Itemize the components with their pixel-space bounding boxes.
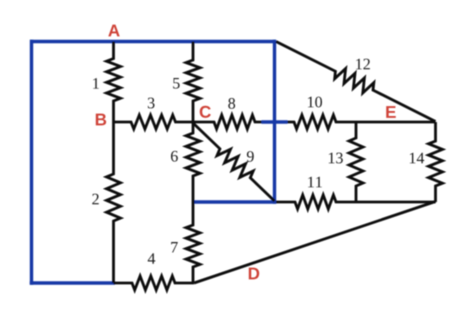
resistor 9 (diagonal from C) [193, 123, 275, 202]
resistor 5 (A to C) [186, 42, 200, 123]
label 3 [148, 98, 155, 109]
label 6 [171, 151, 178, 162]
label 1 [93, 78, 99, 89]
resistor 3 (B to C) [114, 115, 194, 129]
label 2 [92, 194, 98, 205]
resistor 8 (C right) [193, 115, 262, 129]
label 11 [308, 177, 322, 188]
resistor 11 [276, 195, 356, 209]
label 9 [247, 151, 254, 162]
node C [200, 106, 211, 118]
node B [96, 114, 106, 126]
label 14 [410, 153, 424, 164]
node D [249, 268, 259, 280]
label 7 [171, 242, 177, 252]
resistor 13 [349, 122, 363, 202]
wire: blue bus bottom-left [30, 281, 115, 284]
label 10 [308, 97, 322, 108]
resistor 4 (bottom wire) [114, 276, 195, 290]
resistor 6 (C down) [186, 122, 200, 202]
wire: E row (R10 to node E) [356, 121, 436, 124]
wire: diagonal D (bottom node to right corner) [194, 202, 436, 284]
resistor 12 (diagonal from A bus) [276, 42, 436, 122]
label 5 [173, 78, 179, 89]
wire: blue tick crossing C-E row [262, 120, 288, 123]
label 12 [356, 59, 370, 70]
resistor 2 (B to bottom) [107, 122, 121, 283]
resistor 14 [429, 122, 443, 202]
node A [108, 25, 119, 37]
resistor 7 [186, 202, 200, 283]
wire: blue horizontal mid (C row to branch) [192, 200, 276, 203]
wire: R11 row to right corner [356, 201, 436, 204]
resistor 10 [288, 115, 357, 129]
node E [386, 106, 396, 118]
wire: blue bus top (node A) [30, 40, 276, 43]
wire: blue bus left side [30, 40, 33, 285]
label 4 [148, 253, 155, 264]
label 13 [329, 153, 343, 164]
wire: blue vertical branch [273, 40, 276, 204]
resistor 1 (A to B) [107, 42, 121, 123]
label 8 [228, 98, 235, 109]
